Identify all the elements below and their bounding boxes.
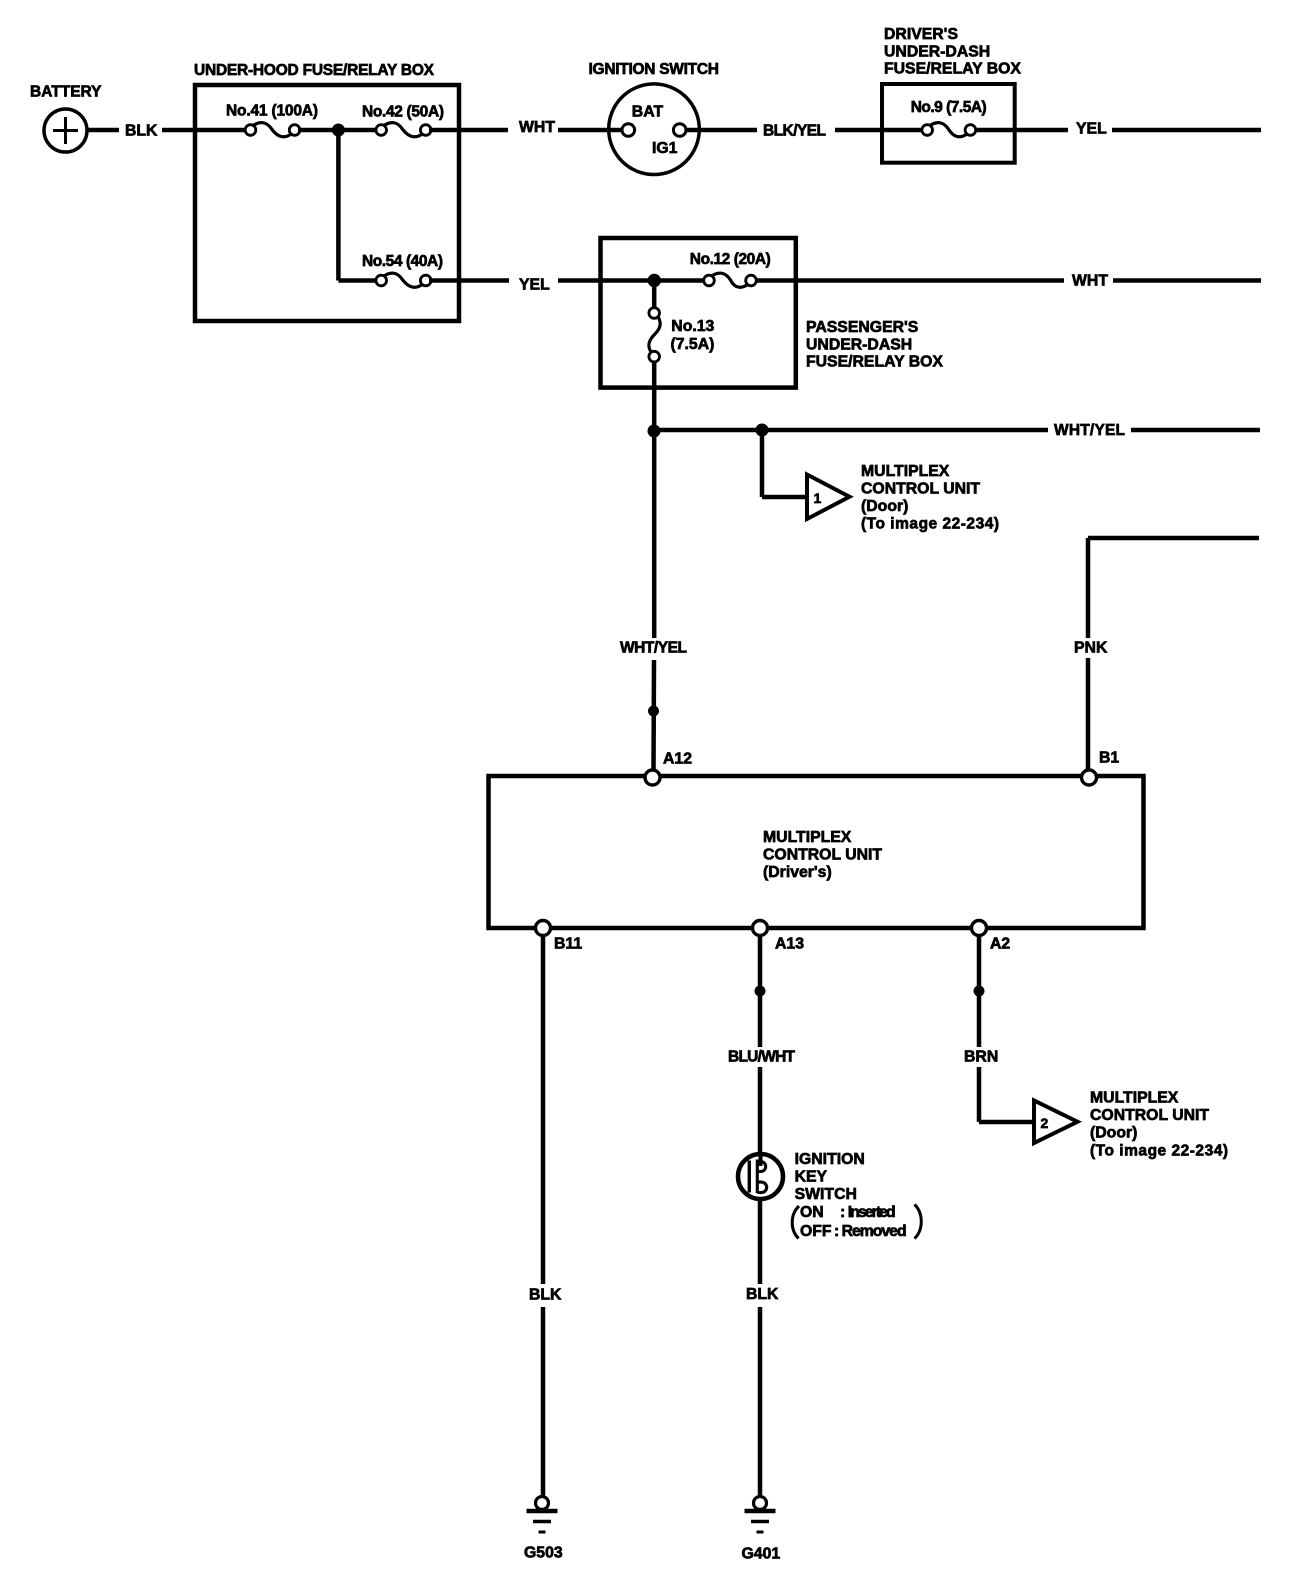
svg-text:CONTROL UNIT: CONTROL UNIT (763, 847, 882, 864)
svg-text:YEL: YEL (519, 277, 550, 294)
svg-text:WHT: WHT (1072, 273, 1108, 290)
svg-text:BLK: BLK (125, 123, 158, 140)
svg-text::: : (834, 1223, 839, 1240)
svg-text:DRIVER'S: DRIVER'S (884, 26, 958, 43)
svg-text:BLK: BLK (529, 1287, 562, 1304)
svg-text:KEY: KEY (795, 1169, 828, 1186)
svg-text:No.54 (40A): No.54 (40A) (362, 253, 443, 270)
svg-text:No.42 (50A): No.42 (50A) (362, 104, 444, 121)
svg-text:A12: A12 (663, 751, 692, 768)
svg-text:IGNITION: IGNITION (795, 1151, 865, 1168)
svg-text:IG1: IG1 (652, 140, 678, 157)
svg-text:B1: B1 (1099, 750, 1119, 767)
svg-text:UNDER-HOOD FUSE/RELAY BOX: UNDER-HOOD FUSE/RELAY BOX (194, 62, 435, 79)
svg-text:(Door): (Door) (861, 498, 908, 515)
svg-text:(Driver's): (Driver's) (763, 864, 832, 881)
svg-text:B11: B11 (554, 936, 582, 953)
svg-text:OFF: OFF (800, 1223, 832, 1240)
svg-text:A2: A2 (990, 936, 1010, 953)
svg-text:A13: A13 (775, 936, 804, 953)
svg-text:No.13: No.13 (671, 318, 714, 335)
svg-text:BAT: BAT (632, 104, 664, 121)
svg-text:WHT/YEL: WHT/YEL (620, 640, 687, 657)
svg-text:ON: ON (800, 1204, 824, 1221)
svg-text:(To image 22-234): (To image 22-234) (1090, 1143, 1228, 1160)
svg-text:PASSENGER'S: PASSENGER'S (806, 319, 918, 336)
svg-text:MULTIPLEX: MULTIPLEX (763, 829, 852, 846)
svg-text:(Door): (Door) (1090, 1125, 1137, 1142)
svg-text:No.9 (7.5A): No.9 (7.5A) (911, 99, 987, 116)
svg-text:G401: G401 (742, 1546, 781, 1563)
svg-text:FUSE/RELAY BOX: FUSE/RELAY BOX (884, 60, 1021, 77)
svg-text:1: 1 (814, 490, 822, 506)
svg-text:BLU/WHT: BLU/WHT (728, 1049, 796, 1066)
svg-text:BATTERY: BATTERY (30, 84, 102, 101)
svg-text:Inserted: Inserted (848, 1204, 896, 1221)
svg-text:UNDER-DASH: UNDER-DASH (806, 337, 912, 354)
svg-text:No.12 (20A): No.12 (20A) (690, 251, 771, 268)
svg-text::: : (840, 1204, 845, 1221)
svg-text:CONTROL UNIT: CONTROL UNIT (861, 481, 980, 498)
svg-text:UNDER-DASH: UNDER-DASH (884, 43, 990, 60)
svg-text:BLK: BLK (746, 1286, 779, 1303)
svg-text:YEL: YEL (1076, 121, 1107, 138)
svg-text:Removed: Removed (842, 1223, 907, 1240)
svg-text:G503: G503 (524, 1545, 563, 1562)
svg-text:No.41 (100A): No.41 (100A) (226, 103, 318, 120)
svg-text:BLK/YEL: BLK/YEL (763, 123, 826, 140)
svg-text:WHT: WHT (519, 119, 555, 136)
svg-text:PNK: PNK (1074, 640, 1108, 657)
svg-text:2: 2 (1041, 1115, 1049, 1131)
svg-text:(7.5A): (7.5A) (671, 336, 715, 353)
svg-text:BRN: BRN (964, 1049, 998, 1066)
svg-text:FUSE/RELAY BOX: FUSE/RELAY BOX (806, 354, 943, 371)
svg-text:MULTIPLEX: MULTIPLEX (1090, 1090, 1179, 1107)
svg-text:(To image 22-234): (To image 22-234) (861, 516, 999, 533)
svg-text:MULTIPLEX: MULTIPLEX (861, 463, 950, 480)
svg-text:SWITCH: SWITCH (795, 1186, 857, 1203)
svg-text:WHT/YEL: WHT/YEL (1054, 422, 1125, 439)
svg-text:IGNITION SWITCH: IGNITION SWITCH (589, 61, 720, 78)
svg-text:CONTROL UNIT: CONTROL UNIT (1090, 1107, 1209, 1124)
